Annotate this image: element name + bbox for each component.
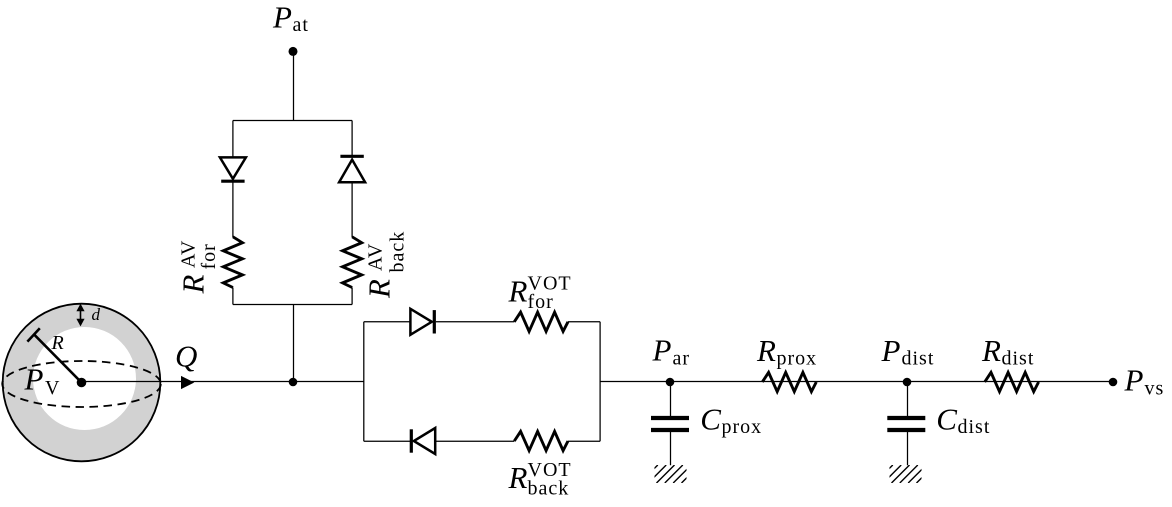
svg-text:Q: Q — [175, 339, 197, 374]
svg-text:d: d — [92, 305, 101, 324]
svg-text:R: R — [51, 332, 64, 354]
svg-text:RVOTback: RVOTback — [508, 459, 572, 500]
